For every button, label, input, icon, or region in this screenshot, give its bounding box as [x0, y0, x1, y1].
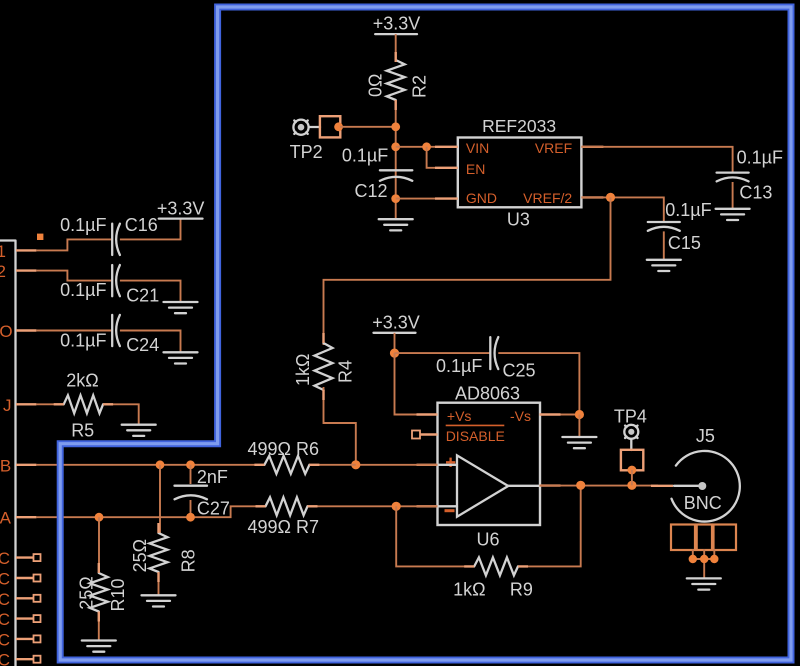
svg-text:C: C	[0, 651, 10, 666]
svg-text:0.1µF: 0.1µF	[60, 280, 106, 300]
power +3.3V (top)	[373, 14, 421, 34]
capacitor C27	[175, 465, 230, 519]
svg-text:B: B	[0, 456, 11, 475]
svg-text:C12: C12	[355, 181, 388, 201]
wire C25 to -Vs	[498, 353, 579, 414]
capacitor C21	[60, 265, 159, 306]
wire to VIN	[396, 146, 458, 148]
svg-text:EN: EN	[466, 161, 485, 177]
ground (-Vs)	[562, 437, 596, 448]
svg-text:499Ω R6: 499Ω R6	[248, 439, 320, 459]
junction	[606, 193, 615, 202]
wire VREF/2	[581, 197, 663, 222]
junction	[156, 460, 165, 469]
IC U3 REF2033	[458, 116, 582, 229]
pin J	[3, 396, 36, 415]
junction	[576, 481, 585, 490]
svg-text:2: 2	[0, 262, 6, 281]
resistor R10	[77, 573, 129, 612]
junction	[710, 555, 718, 563]
junction (GND node)	[391, 194, 400, 203]
wire	[36, 271, 112, 281]
svg-text:C21: C21	[126, 286, 159, 306]
pin 1	[0, 242, 36, 261]
svg-text:C16: C16	[125, 215, 158, 235]
svg-text:0.1µF: 0.1µF	[60, 330, 106, 350]
ground (R8)	[142, 595, 176, 606]
power +3.3V (C16)	[157, 198, 205, 218]
ground (R10)	[82, 641, 116, 652]
svg-text:C25: C25	[503, 360, 536, 380]
wire R2 bottom / C12 line	[395, 100, 397, 219]
svg-text:C13: C13	[739, 182, 772, 202]
svg-text:1kΩ: 1kΩ	[453, 580, 485, 600]
svg-text:REF2033: REF2033	[482, 116, 556, 136]
svg-text:499Ω R7: 499Ω R7	[248, 517, 320, 537]
ground (J5)	[687, 578, 721, 589]
wire	[98, 612, 100, 641]
wire output	[540, 485, 659, 487]
wire DISABLE stub	[420, 434, 438, 436]
wire	[631, 470, 633, 485]
svg-text:R2: R2	[409, 75, 429, 98]
svg-text:C: C	[0, 549, 10, 568]
junction	[422, 142, 431, 151]
wire to R8	[159, 465, 161, 533]
pin A	[0, 509, 36, 528]
junction	[351, 460, 360, 469]
wire	[395, 34, 397, 60]
svg-text:GND: GND	[466, 190, 497, 206]
svg-text:VREF: VREF	[535, 140, 572, 156]
wire + input	[356, 464, 438, 466]
svg-text:25Ω: 25Ω	[77, 576, 97, 609]
svg-text:1kΩ: 1kΩ	[293, 354, 313, 386]
svg-text:R4: R4	[336, 360, 356, 383]
wire	[309, 464, 355, 466]
capacitor C24	[60, 315, 159, 355]
resistor R4	[293, 343, 356, 390]
wire to C25	[395, 352, 491, 354]
svg-text:J: J	[3, 396, 12, 415]
svg-text:+3.3V: +3.3V	[157, 198, 205, 218]
junction	[186, 460, 195, 469]
svg-text:C24: C24	[126, 335, 159, 355]
pin 2	[0, 262, 36, 281]
resistor pin stubs	[54, 52, 528, 622]
pins C x6 (unconnected)	[0, 549, 41, 666]
svg-text:AD8063: AD8063	[455, 383, 520, 403]
svg-text:TP4: TP4	[614, 407, 647, 427]
wire	[36, 403, 63, 405]
ground (C12)	[379, 219, 413, 230]
wire - input	[308, 505, 438, 507]
power +3.3V (mid)	[372, 313, 420, 333]
svg-text:+3.3V: +3.3V	[373, 14, 421, 34]
net marker square	[37, 234, 43, 240]
junction	[575, 410, 584, 419]
svg-text:0.1µF: 0.1µF	[436, 356, 482, 376]
ground (R5)	[122, 425, 156, 436]
svg-text:BNC: BNC	[684, 493, 722, 513]
svg-text:R9: R9	[510, 580, 533, 600]
wire	[36, 330, 112, 332]
wire to U3 GND	[396, 198, 458, 200]
capacitor C16	[60, 215, 158, 255]
wire	[158, 572, 160, 595]
capacitor C12	[342, 145, 412, 201]
resistor R9	[453, 557, 533, 599]
junction	[390, 349, 399, 358]
svg-text:+Vs: +Vs	[447, 408, 472, 424]
wire	[518, 485, 581, 566]
junction	[95, 513, 104, 522]
wire to EN	[427, 147, 458, 168]
wire	[36, 239, 112, 250]
svg-text:0Ω: 0Ω	[366, 74, 386, 97]
capacitor C15	[648, 200, 712, 253]
svg-text:+3.3V: +3.3V	[372, 313, 420, 333]
svg-text:R5: R5	[71, 421, 94, 441]
wire +Vs	[395, 353, 438, 414]
wire	[120, 331, 181, 353]
wire shield to ground	[693, 549, 715, 578]
junction	[689, 555, 697, 563]
svg-text:0.1µF: 0.1µF	[342, 145, 388, 165]
svg-text:C27: C27	[197, 499, 230, 519]
pin B	[0, 456, 36, 475]
svg-text:0.1µF: 0.1µF	[60, 215, 106, 235]
capacitor C25	[436, 337, 536, 380]
junction	[391, 122, 400, 131]
svg-text:U6: U6	[476, 530, 499, 550]
resistor R8	[130, 533, 199, 572]
wire net B	[36, 464, 264, 466]
wire	[120, 281, 181, 302]
U3 pin stubs	[435, 147, 603, 199]
svg-text:2kΩ: 2kΩ	[66, 370, 98, 390]
resistor R6	[248, 439, 320, 474]
pin O	[0, 322, 36, 341]
svg-text:25Ω: 25Ω	[130, 539, 150, 572]
no-connect square (DISABLE)	[412, 431, 420, 439]
wire	[103, 404, 139, 424]
J5 shield contacts	[671, 525, 736, 551]
wire to R10	[98, 517, 100, 573]
wire output thick (J5 pin)	[651, 485, 673, 487]
connector J5 (BNC)	[672, 426, 740, 521]
wire	[578, 415, 580, 438]
wire	[663, 231, 665, 259]
op-amp U6 AD8063	[438, 383, 541, 549]
svg-text:J5: J5	[696, 426, 715, 446]
svg-text:1: 1	[0, 242, 6, 261]
svg-text:DISABLE: DISABLE	[446, 428, 505, 444]
wire VREF to C13	[581, 147, 732, 173]
wire	[732, 182, 734, 209]
svg-text:-Vs: -Vs	[510, 408, 531, 424]
svg-text:C: C	[0, 590, 10, 609]
svg-text:0.1µF: 0.1µF	[737, 148, 783, 168]
test point TP4	[614, 407, 647, 471]
resistor R5	[64, 370, 103, 440]
junction	[391, 142, 400, 151]
wire	[394, 333, 396, 353]
connector body (left edge, cut off)	[0, 241, 16, 666]
U6 pin stubs	[417, 415, 561, 507]
svg-text:0.1µF: 0.1µF	[665, 200, 711, 220]
svg-text:2nF: 2nF	[197, 467, 228, 487]
wire R9 loop	[396, 506, 474, 566]
svg-text:C15: C15	[668, 233, 701, 253]
svg-text:R8: R8	[179, 549, 199, 572]
svg-text:C: C	[0, 630, 10, 649]
junction (TP4 pad)	[628, 466, 637, 475]
ground (C13)	[716, 209, 750, 220]
svg-text:VREF/2: VREF/2	[523, 190, 572, 206]
svg-text:TP2: TP2	[290, 142, 323, 162]
svg-text:O: O	[0, 322, 13, 341]
wire	[340, 126, 396, 128]
ground (C15)	[647, 260, 681, 271]
junction	[627, 481, 636, 490]
junction (TP2 pad)	[334, 122, 343, 131]
wire net A	[36, 506, 265, 517]
wire R4 bottom	[324, 387, 356, 465]
svg-text:C: C	[0, 610, 10, 629]
wire VREF/2 route to R4	[324, 197, 611, 345]
svg-text:VIN: VIN	[466, 140, 489, 156]
svg-text:U3: U3	[507, 210, 530, 230]
svg-text:R10: R10	[108, 578, 128, 611]
svg-text:A: A	[0, 509, 12, 528]
svg-text:C: C	[0, 570, 10, 589]
ground (C24)	[164, 352, 198, 363]
junction	[392, 502, 401, 511]
wire	[120, 219, 181, 240]
capacitor C13	[717, 148, 783, 203]
resistor R2	[366, 60, 430, 100]
test point TP2	[290, 116, 341, 162]
resistor R7	[248, 497, 320, 537]
ground (C21)	[164, 302, 198, 313]
junction	[700, 555, 708, 563]
junction	[186, 513, 195, 522]
